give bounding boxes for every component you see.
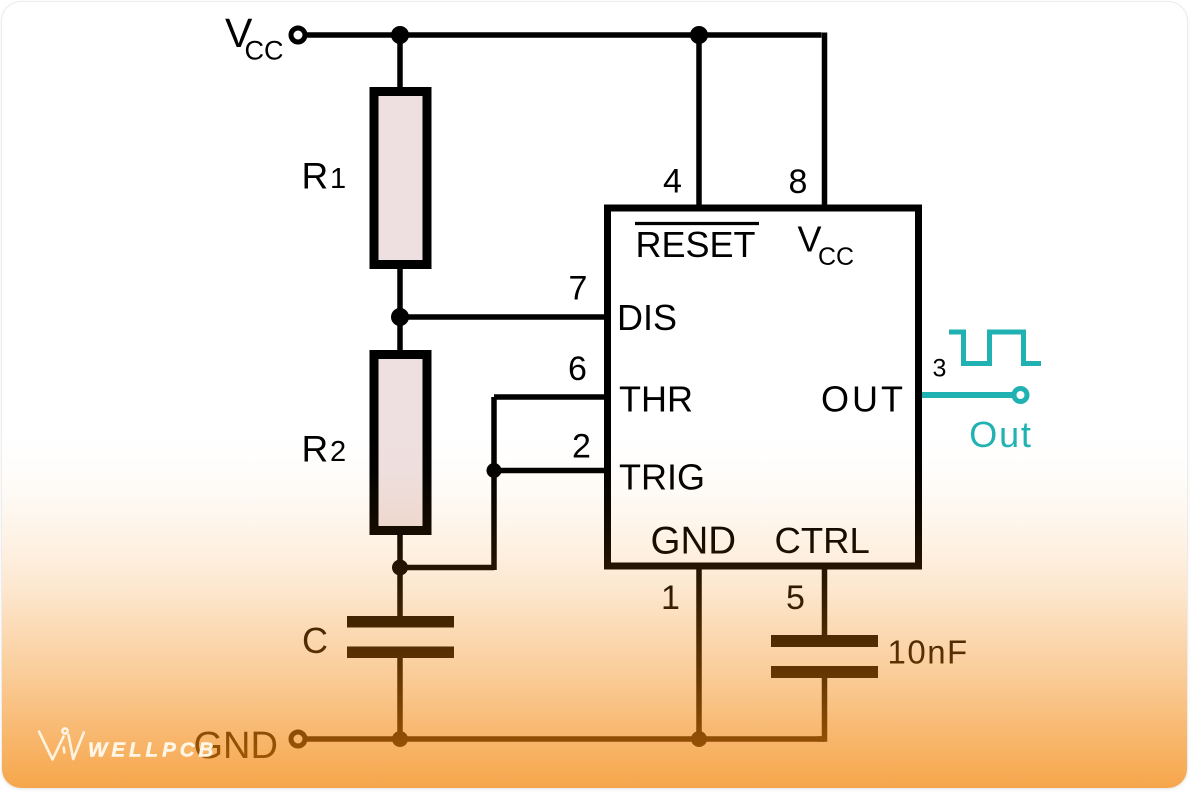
svg-text:R: R xyxy=(302,156,329,197)
svg-text:DIS: DIS xyxy=(617,297,677,338)
svg-text:TRIG: TRIG xyxy=(619,457,705,498)
svg-text:RESET: RESET xyxy=(636,224,756,265)
svg-text:1: 1 xyxy=(661,579,680,617)
svg-text:C: C xyxy=(302,620,328,661)
svg-text:CC: CC xyxy=(818,243,854,271)
svg-text:CC: CC xyxy=(245,36,284,66)
svg-text:6: 6 xyxy=(568,350,587,388)
svg-text:4: 4 xyxy=(663,163,682,201)
svg-text:WELLPCB: WELLPCB xyxy=(88,739,217,762)
svg-text:10nF: 10nF xyxy=(888,634,969,671)
svg-text:1: 1 xyxy=(330,163,346,195)
svg-text:R: R xyxy=(302,429,329,470)
svg-text:GND: GND xyxy=(651,520,737,563)
svg-text:3: 3 xyxy=(933,355,947,383)
svg-text:THR: THR xyxy=(619,379,693,420)
svg-text:8: 8 xyxy=(789,163,808,201)
svg-text:7: 7 xyxy=(569,270,588,308)
svg-text:2: 2 xyxy=(330,436,346,468)
svg-text:OUT: OUT xyxy=(821,379,906,420)
svg-text:CTRL: CTRL xyxy=(775,520,870,561)
svg-text:5: 5 xyxy=(786,579,805,617)
svg-text:Out: Out xyxy=(969,414,1032,455)
svg-text:2: 2 xyxy=(572,428,591,466)
